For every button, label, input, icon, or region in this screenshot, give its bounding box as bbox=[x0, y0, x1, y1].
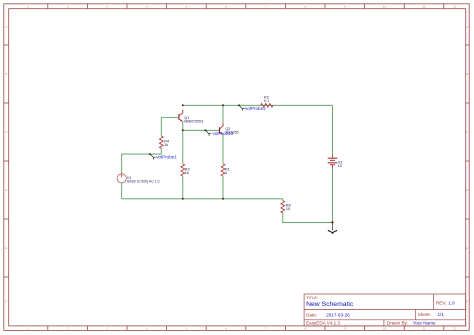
wire R6 bottom to ground node bbox=[283, 213, 333, 222]
svg-text:E: E bbox=[5, 246, 7, 250]
svg-text:11: 11 bbox=[422, 5, 425, 9]
junction R3 at bottom rail bbox=[182, 198, 184, 200]
svg-text:volProbe2: volProbe2 bbox=[245, 106, 266, 111]
resistor R6 bbox=[281, 201, 285, 213]
svg-text:2017-03-26: 2017-03-26 bbox=[326, 312, 350, 317]
svg-text:12: 12 bbox=[453, 327, 457, 331]
svg-text:SIN(0 10 500) AC 1 0: SIN(0 10 500) AC 1 0 bbox=[127, 180, 160, 184]
svg-text:12: 12 bbox=[453, 5, 457, 9]
svg-text:TITLE:: TITLE: bbox=[306, 295, 318, 300]
junction battery/ground/R6 node bbox=[331, 221, 333, 223]
volProbe3 label bbox=[213, 131, 234, 136]
wire node E1 down to R3 bbox=[182, 130, 184, 164]
Q2 label "Q2 2N3055" bbox=[225, 127, 238, 135]
volProbe1 label bbox=[156, 155, 177, 160]
svg-text:0.1: 0.1 bbox=[264, 99, 269, 103]
wire top rail node N1 bbox=[183, 104, 333, 106]
svg-text:F: F bbox=[5, 300, 7, 304]
transistor Q2 bbox=[220, 124, 224, 135]
junction R1 at bottom rail bbox=[222, 198, 224, 200]
voltage source V1 bbox=[117, 174, 126, 183]
wire Q2 collector to top rail bbox=[222, 105, 224, 126]
svg-text:F: F bbox=[466, 300, 468, 304]
resistor R2 bbox=[261, 103, 273, 107]
V1 label "V1 SIN(0 10 500) AC 1 0" bbox=[127, 176, 160, 184]
junction Q2 collector at top rail bbox=[222, 104, 224, 106]
svg-text:Drawn By:: Drawn By: bbox=[387, 321, 408, 326]
resistor R1 bbox=[221, 164, 225, 176]
svg-text:10: 10 bbox=[338, 164, 342, 168]
junction node E1 (Q1 emitter / Q2 base / R3) bbox=[182, 129, 184, 131]
wire V1 bottom to rail bbox=[121, 183, 123, 199]
R4 label "R4 1k" bbox=[164, 140, 169, 148]
svg-text:1/1: 1/1 bbox=[438, 312, 445, 317]
wire rail to R6 top bbox=[282, 199, 284, 201]
svg-text:Date:: Date: bbox=[306, 312, 317, 317]
resistor R4 bbox=[159, 136, 163, 148]
svg-text:B: B bbox=[5, 72, 7, 76]
V2 label "V2 10" bbox=[338, 160, 343, 168]
R3 label "R3 1k" bbox=[185, 167, 190, 175]
svg-text:10: 10 bbox=[383, 327, 387, 331]
svg-text:10: 10 bbox=[383, 5, 387, 9]
svg-text:Sheet:: Sheet: bbox=[418, 312, 431, 317]
svg-text:1.0: 1.0 bbox=[448, 301, 455, 306]
R1 label "R1 1" bbox=[225, 167, 230, 175]
svg-text:1: 1 bbox=[225, 171, 227, 175]
svg-text:EasyEDA V4.1.3: EasyEDA V4.1.3 bbox=[306, 321, 340, 326]
wire Q1 base to R4 top bbox=[161, 118, 179, 137]
svg-text:A: A bbox=[466, 25, 468, 29]
battery V2 bbox=[328, 155, 338, 168]
wire R4 bottom to V1 top bbox=[122, 148, 162, 173]
svg-text:1k: 1k bbox=[185, 171, 189, 175]
svg-text:MMBT5551: MMBT5551 bbox=[184, 119, 203, 123]
resistor R3 bbox=[181, 164, 185, 176]
wire top rail to battery V2 bbox=[332, 105, 334, 155]
svg-text:11: 11 bbox=[422, 327, 425, 331]
wire R3 bottom to ground rail bbox=[182, 176, 184, 199]
svg-text:REV:: REV: bbox=[436, 301, 447, 306]
svg-text:volProbe3: volProbe3 bbox=[213, 131, 234, 136]
svg-text:1k: 1k bbox=[164, 143, 168, 147]
Q1 label "Q1 MMBT5551" bbox=[184, 116, 203, 124]
wire Q2 emitter to R1 top bbox=[222, 135, 224, 164]
wire battery V2 to ground node bbox=[332, 169, 334, 223]
svg-text:A: A bbox=[5, 25, 7, 29]
svg-text:Your Name: Your Name bbox=[413, 321, 436, 326]
wire R1 bottom to ground rail bbox=[222, 176, 224, 199]
ground bbox=[328, 223, 337, 234]
probe volProbe3 bbox=[205, 129, 212, 135]
svg-text:volProbe1: volProbe1 bbox=[156, 155, 177, 160]
svg-text:E: E bbox=[466, 246, 468, 250]
junction Q1 collector at top rail bbox=[182, 104, 184, 106]
wire node E1 to Q2 base bbox=[183, 129, 220, 131]
svg-text:10: 10 bbox=[286, 207, 290, 211]
transistor Q1 bbox=[179, 110, 183, 122]
R2 label "R2 0.1" bbox=[264, 96, 269, 104]
probe volProbe2 bbox=[238, 104, 245, 110]
wire bottom rail bbox=[122, 198, 283, 200]
R6 label "R6 10" bbox=[286, 203, 291, 211]
wire Q1 emitter to node E1 bbox=[182, 122, 184, 131]
volProbe2 label bbox=[245, 106, 266, 111]
svg-text:B: B bbox=[466, 72, 468, 76]
probe volProbe1 bbox=[149, 153, 156, 159]
svg-text:New Schematic: New Schematic bbox=[306, 301, 354, 308]
